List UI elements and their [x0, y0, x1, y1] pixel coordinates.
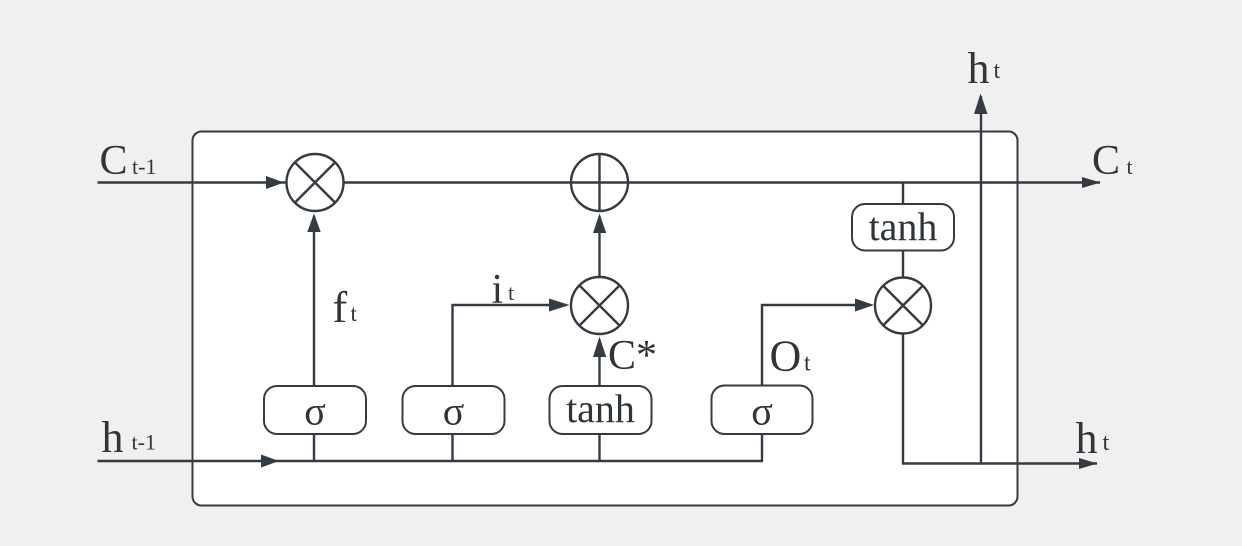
wire: forget gate up leg	[313, 216, 315, 386]
multiply node X1	[287, 154, 344, 211]
svg-text:h: h	[1076, 414, 1098, 463]
gate sigma2 (input)	[403, 386, 505, 434]
label h_t-1	[102, 413, 156, 462]
svg-text:h: h	[102, 413, 124, 462]
label h_t right	[1076, 414, 1110, 463]
wire: output gate down leg	[761, 434, 763, 461]
wire: input gate i_t path	[453, 305, 567, 386]
gate sigma3 (output)	[712, 386, 813, 435]
label h_t top	[968, 44, 1001, 93]
svg-text:O: O	[770, 332, 802, 381]
arrowhead: h entry	[261, 455, 279, 468]
arrowhead: C exit	[1082, 177, 1101, 188]
svg-text:C: C	[100, 138, 128, 184]
svg-text:t: t	[1127, 154, 1133, 179]
label O_t	[770, 332, 812, 381]
wire: tanh2 tap upper	[902, 183, 904, 206]
gate tanh2 (output tanh)	[852, 204, 954, 251]
adder node plus	[571, 154, 628, 211]
multiply node X3	[875, 278, 931, 334]
wire: forget gate down leg	[313, 434, 315, 461]
svg-text:f: f	[333, 283, 348, 332]
label i_t	[492, 267, 515, 313]
arrowhead: into adder	[593, 214, 606, 234]
label f_t	[333, 283, 358, 332]
svg-text:t: t	[1103, 430, 1110, 456]
wire: input gate down leg	[451, 434, 453, 461]
arrowhead: h top output	[974, 94, 988, 115]
svg-text:σ: σ	[751, 389, 773, 434]
multiply node X2	[571, 277, 628, 334]
svg-text:t: t	[804, 351, 811, 377]
label C_t	[1092, 138, 1133, 184]
svg-text:tanh: tanh	[869, 204, 938, 249]
LSTM cell boundary box	[193, 132, 1018, 506]
wire: multiply X2 to adder	[598, 216, 600, 277]
svg-text:t: t	[994, 58, 1001, 84]
wire: h bottom bus	[98, 460, 764, 462]
arrowhead: into multiply X1	[307, 214, 320, 233]
wire: tanh gate down leg	[598, 434, 600, 461]
label C_t-1	[100, 138, 157, 184]
svg-text:t-1: t-1	[132, 430, 156, 455]
svg-text:C*: C*	[608, 333, 657, 379]
gate tanh1 (candidate)	[550, 386, 652, 434]
wire: output of multiply X3 down and right to h_t exit	[903, 334, 1097, 464]
arrowhead: into multiply X2 bottom	[593, 337, 606, 358]
gate sigma1 (forget)	[264, 386, 366, 434]
wire: candidate C* leg	[598, 340, 600, 386]
arrowhead: h exit right	[1079, 458, 1098, 469]
wire: output gate O_t path	[762, 305, 870, 386]
svg-text:tanh: tanh	[566, 386, 635, 431]
svg-text:t-1: t-1	[132, 154, 156, 179]
wire: h_t vertical up output	[980, 96, 982, 465]
svg-text:C: C	[1092, 138, 1120, 184]
svg-text:t: t	[508, 280, 514, 305]
wire: C cell-state line	[98, 181, 1101, 183]
arrowhead: C entry	[266, 176, 284, 189]
arrowhead: into multiply X3 left	[855, 299, 874, 312]
arrowhead: into multiply X2 left	[549, 299, 570, 312]
svg-text:h: h	[968, 44, 990, 93]
svg-text:t: t	[351, 301, 358, 326]
svg-text:i: i	[492, 267, 504, 313]
svg-text:σ: σ	[443, 389, 465, 434]
svg-text:σ: σ	[304, 389, 326, 434]
wire: tanh2 to multiply X3	[902, 250, 904, 278]
